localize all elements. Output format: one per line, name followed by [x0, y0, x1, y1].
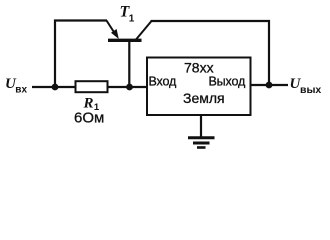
svg-text:вых: вых: [300, 84, 321, 96]
transistor T1 label: [120, 4, 135, 25]
wire ground lead: [200, 115, 202, 137]
svg-text:Выход: Выход: [209, 74, 247, 88]
transistor T1 base bar: [108, 39, 142, 42]
resistor R1 label: [83, 96, 100, 113]
svg-text:1: 1: [129, 14, 135, 25]
svg-text:78xx: 78xx: [184, 60, 214, 76]
wire top collector to output: [151, 21, 270, 84]
ground: [188, 138, 215, 148]
transistor T1 emitter arrowhead: [111, 29, 119, 39]
svg-text:6Ом: 6Ом: [74, 110, 104, 127]
wire output: [251, 84, 289, 86]
svg-text:Вход: Вход: [149, 74, 178, 88]
wire input right of resistor: [108, 86, 148, 88]
svg-text:вх: вх: [15, 84, 27, 95]
svg-text:Земля: Земля: [183, 90, 225, 106]
wire riser to emitter: [55, 21, 107, 88]
transistor T1 emitter: [107, 21, 116, 35]
node junction C (output): [266, 82, 273, 89]
transistor T1 collector: [136, 21, 152, 40]
wire input left: [32, 86, 76, 88]
transistor T1 base lead wire: [128, 42, 130, 88]
regulator U1 78xx box: [147, 58, 251, 116]
node Uout label: [290, 76, 322, 96]
node junction B (base/regulator input): [126, 84, 133, 91]
resistor R1: [76, 81, 108, 92]
node Uin label: [5, 76, 27, 95]
node junction A (input/emitter): [52, 84, 59, 91]
